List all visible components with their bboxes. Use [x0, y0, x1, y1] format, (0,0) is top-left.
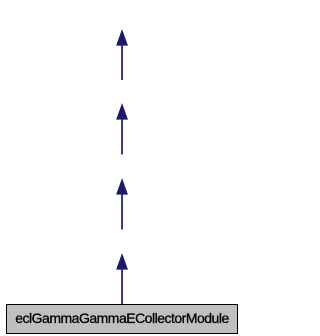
inheritance arrow 1 (topmost) [117, 30, 128, 80]
inheritance arrow 3 [117, 179, 128, 230]
class box eclGammaGammaECollectorModule [7, 305, 238, 334]
svg-text:eclGammaGammaECollectorModule: eclGammaGammaECollectorModule [15, 310, 229, 326]
doxygen inheritance diagram for eclGammaGammaECollectorModule [0, 0, 244, 336]
inheritance arrow 4 (bottom, from class box) [117, 254, 128, 304]
inheritance arrow 2 [117, 104, 128, 155]
